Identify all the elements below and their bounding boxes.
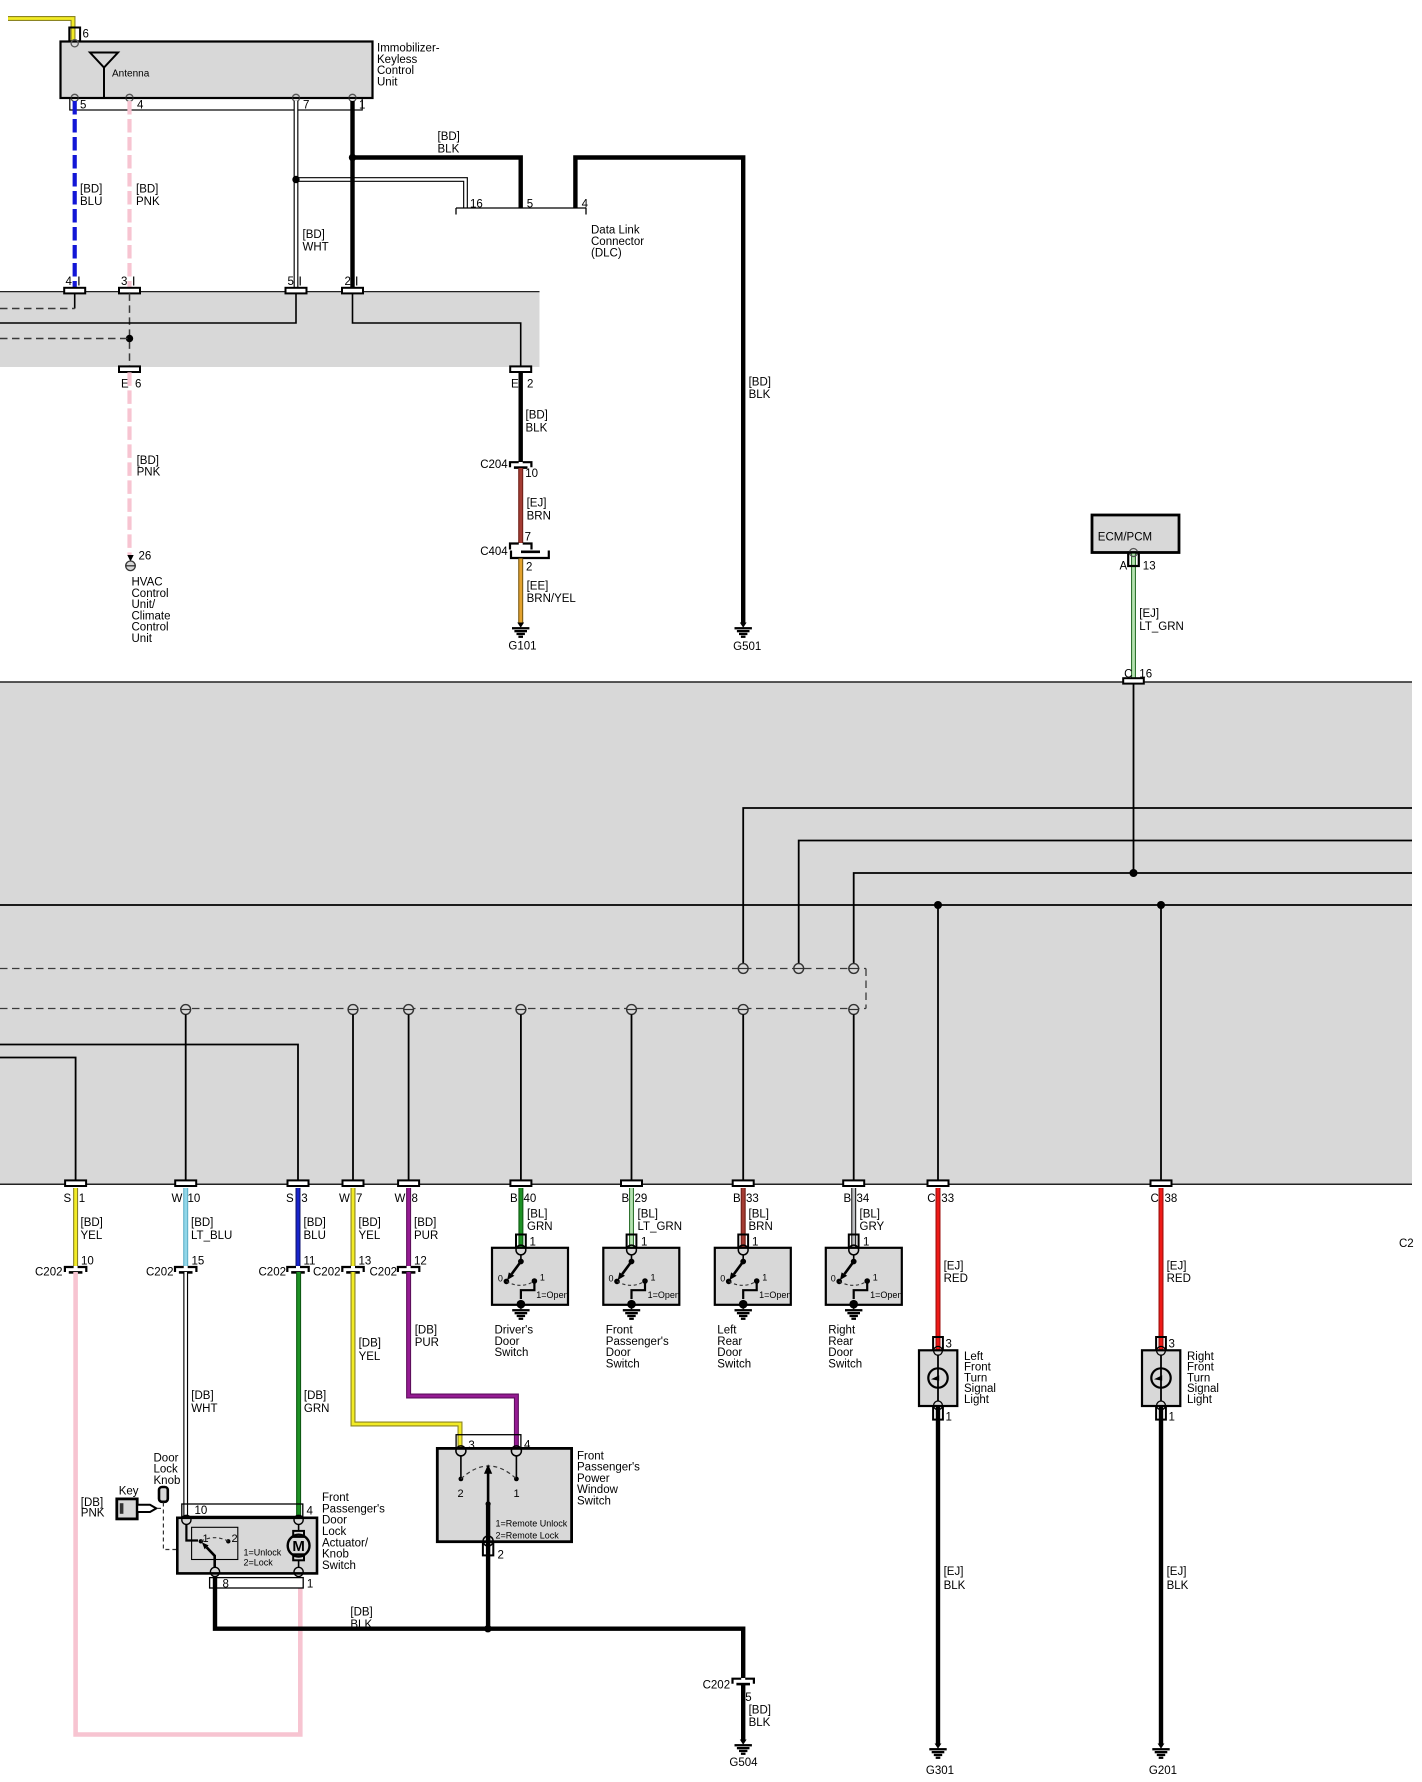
svg-text:0: 0	[831, 1274, 836, 1284]
svg-text:Unit: Unit	[377, 76, 398, 88]
svg-text:C: C	[927, 1193, 935, 1205]
svg-text:[EJ]: [EJ]	[1167, 1566, 1187, 1578]
svg-text:16: 16	[470, 199, 483, 211]
svg-text:W: W	[339, 1193, 350, 1205]
svg-text:PUR: PUR	[414, 1230, 438, 1242]
svg-text:[BD]: [BD]	[80, 183, 102, 195]
svg-text:[BD]: [BD]	[749, 1704, 771, 1716]
svg-text:1=Remote Unlock: 1=Remote Unlock	[496, 1519, 568, 1529]
svg-text:1: 1	[651, 1273, 656, 1283]
svg-text:Door: Door	[154, 1452, 179, 1464]
svg-text:Immobilizer-: Immobilizer-	[377, 43, 440, 55]
svg-text:[DB]: [DB]	[304, 1390, 326, 1402]
svg-text:12: 12	[414, 1256, 427, 1268]
svg-text:Keyless: Keyless	[377, 54, 418, 66]
svg-text:[DB]: [DB]	[415, 1325, 437, 1337]
svg-text:[BL]: [BL]	[638, 1209, 658, 1221]
svg-text:Front: Front	[577, 1450, 605, 1462]
svg-text:[EJ]: [EJ]	[944, 1261, 964, 1273]
svg-text:Switch: Switch	[577, 1496, 611, 1508]
svg-text:Door: Door	[717, 1347, 742, 1359]
svg-text:Connector: Connector	[591, 236, 644, 248]
svg-text:1: 1	[641, 1236, 647, 1248]
svg-text:Rear: Rear	[828, 1336, 853, 1348]
svg-text:RED: RED	[1167, 1273, 1191, 1285]
svg-text:RED: RED	[944, 1273, 968, 1285]
svg-text:7: 7	[525, 532, 531, 544]
svg-text:S: S	[64, 1193, 72, 1205]
svg-text:[BL]: [BL]	[527, 1209, 547, 1221]
svg-text:YEL: YEL	[81, 1230, 103, 1242]
svg-text:Climate: Climate	[132, 610, 171, 622]
svg-text:2: 2	[527, 378, 533, 390]
svg-text:Antenna: Antenna	[112, 69, 150, 80]
svg-text:LT_GRN: LT_GRN	[1139, 621, 1184, 633]
svg-text:33: 33	[746, 1193, 759, 1205]
svg-text:B: B	[622, 1193, 630, 1205]
svg-text:WHT: WHT	[191, 1403, 217, 1415]
svg-text:YEL: YEL	[359, 1351, 381, 1363]
svg-text:10: 10	[188, 1193, 201, 1205]
svg-text:C2: C2	[1399, 1238, 1414, 1250]
svg-text:1: 1	[530, 1236, 536, 1248]
svg-text:B: B	[733, 1193, 741, 1205]
svg-text:1: 1	[540, 1273, 545, 1283]
svg-text:[BD]: [BD]	[438, 131, 460, 143]
svg-text:PUR: PUR	[415, 1337, 439, 1349]
svg-text:Door: Door	[606, 1347, 631, 1359]
svg-text:0: 0	[609, 1274, 614, 1284]
svg-text:BLU: BLU	[304, 1230, 326, 1242]
svg-text:C202: C202	[259, 1267, 287, 1279]
svg-text:[DB]: [DB]	[350, 1607, 372, 1619]
svg-text:G301: G301	[926, 1765, 954, 1777]
svg-text:34: 34	[857, 1193, 870, 1205]
svg-text:Data Link: Data Link	[591, 225, 640, 237]
svg-text:[EJ]: [EJ]	[1139, 608, 1159, 620]
svg-text:2=Lock: 2=Lock	[244, 1557, 274, 1567]
svg-text:ECM/PCM: ECM/PCM	[1098, 531, 1152, 543]
svg-text:[BD]: [BD]	[526, 410, 548, 422]
svg-text:1: 1	[359, 100, 365, 112]
svg-text:1: 1	[762, 1273, 767, 1283]
svg-text:Unit/: Unit/	[132, 599, 156, 611]
svg-text:[BD]: [BD]	[136, 183, 158, 195]
svg-text:BLU: BLU	[80, 196, 102, 208]
svg-text:3: 3	[1169, 1338, 1175, 1350]
svg-text:A: A	[1120, 560, 1128, 572]
svg-text:3: 3	[121, 276, 127, 288]
svg-text:1=Open: 1=Open	[870, 1290, 902, 1300]
svg-text:38: 38	[1165, 1193, 1178, 1205]
svg-text:4: 4	[66, 276, 73, 288]
svg-text:0: 0	[720, 1274, 725, 1284]
svg-text:[BD]: [BD]	[414, 1217, 436, 1229]
svg-text:8: 8	[223, 1578, 229, 1590]
svg-text:M: M	[292, 1538, 305, 1555]
svg-text:BLK: BLK	[526, 422, 548, 434]
svg-text:Lock: Lock	[154, 1464, 179, 1476]
svg-text:BLK: BLK	[1167, 1580, 1189, 1592]
svg-text:1: 1	[752, 1236, 758, 1248]
svg-text:5: 5	[745, 1692, 751, 1704]
svg-text:GRN: GRN	[527, 1221, 553, 1233]
svg-text:BLK: BLK	[350, 1619, 372, 1631]
svg-text:(DLC): (DLC)	[591, 247, 622, 259]
svg-text:3: 3	[946, 1338, 952, 1350]
svg-text:Light: Light	[964, 1394, 990, 1406]
svg-text:0: 0	[498, 1274, 503, 1284]
svg-text:7: 7	[356, 1193, 362, 1205]
svg-text:[BD]: [BD]	[749, 377, 771, 389]
svg-text:[EJ]: [EJ]	[944, 1566, 964, 1578]
svg-text:Actuator/: Actuator/	[322, 1537, 369, 1549]
svg-text:[BD]: [BD]	[359, 1217, 381, 1229]
svg-text:BLK: BLK	[749, 389, 771, 401]
svg-text:4: 4	[307, 1505, 314, 1517]
svg-text:Passenger's: Passenger's	[577, 1462, 640, 1474]
svg-text:G101: G101	[508, 641, 536, 653]
svg-text:C404: C404	[480, 546, 508, 558]
svg-text:8: 8	[412, 1193, 418, 1205]
svg-text:13: 13	[1143, 560, 1156, 572]
svg-text:PNK: PNK	[81, 1508, 105, 1520]
svg-text:GRY: GRY	[860, 1221, 885, 1233]
svg-text:[BD]: [BD]	[191, 1217, 213, 1229]
svg-text:Driver's: Driver's	[495, 1325, 534, 1337]
svg-text:Door: Door	[322, 1515, 347, 1527]
svg-text:BRN: BRN	[749, 1221, 773, 1233]
svg-text:[BD]: [BD]	[137, 455, 159, 467]
svg-text:2=Remote Lock: 2=Remote Lock	[496, 1531, 560, 1541]
svg-text:[DB]: [DB]	[359, 1338, 381, 1350]
svg-text:C204: C204	[480, 459, 508, 471]
svg-text:1=Open: 1=Open	[648, 1290, 680, 1300]
svg-text:29: 29	[635, 1193, 648, 1205]
svg-text:WHT: WHT	[303, 242, 329, 254]
svg-text:Knob: Knob	[322, 1549, 349, 1561]
svg-text:Door: Door	[495, 1336, 520, 1348]
svg-text:PNK: PNK	[137, 467, 161, 479]
svg-text:[DB]: [DB]	[191, 1390, 213, 1402]
svg-text:40: 40	[524, 1193, 537, 1205]
svg-text:26: 26	[139, 550, 152, 562]
svg-text:Control: Control	[377, 65, 414, 77]
svg-text:Control: Control	[132, 588, 169, 600]
svg-text:W: W	[395, 1193, 406, 1205]
svg-text:PNK: PNK	[136, 196, 160, 208]
svg-text:3: 3	[301, 1193, 307, 1205]
svg-text:1=Open: 1=Open	[536, 1290, 568, 1300]
svg-text:G501: G501	[733, 641, 761, 653]
svg-text:1: 1	[946, 1412, 952, 1424]
svg-text:C202: C202	[313, 1267, 341, 1279]
svg-text:Switch: Switch	[717, 1358, 751, 1370]
svg-text:Right: Right	[828, 1325, 856, 1337]
svg-text:C202: C202	[370, 1267, 398, 1279]
svg-text:7: 7	[303, 100, 309, 112]
svg-text:Passenger's: Passenger's	[322, 1503, 385, 1515]
svg-text:G504: G504	[729, 1757, 758, 1769]
svg-text:1: 1	[514, 1488, 520, 1500]
svg-text:[BL]: [BL]	[749, 1209, 769, 1221]
svg-text:Left: Left	[717, 1325, 737, 1337]
svg-text:W: W	[172, 1193, 183, 1205]
svg-text:Power: Power	[577, 1473, 610, 1485]
svg-text:Unit: Unit	[132, 633, 153, 645]
svg-text:YEL: YEL	[359, 1230, 381, 1242]
svg-text:1: 1	[1169, 1412, 1175, 1424]
svg-text:6: 6	[135, 378, 141, 390]
svg-text:2: 2	[526, 562, 532, 574]
svg-text:10: 10	[195, 1505, 208, 1517]
svg-text:[BD]: [BD]	[304, 1217, 326, 1229]
svg-text:Switch: Switch	[322, 1560, 356, 1572]
svg-text:Knob: Knob	[154, 1475, 181, 1487]
svg-text:1: 1	[307, 1578, 313, 1590]
svg-text:S: S	[286, 1193, 294, 1205]
svg-text:B: B	[510, 1193, 518, 1205]
svg-text:4: 4	[137, 100, 144, 112]
svg-text:1: 1	[863, 1236, 869, 1248]
svg-text:10: 10	[525, 468, 538, 480]
svg-text:5: 5	[288, 276, 294, 288]
svg-text:[EE]: [EE]	[527, 580, 549, 592]
svg-text:Light: Light	[1187, 1394, 1213, 1406]
svg-text:C202: C202	[703, 1679, 731, 1691]
svg-text:BLK: BLK	[438, 144, 460, 156]
svg-text:[BD]: [BD]	[303, 229, 325, 241]
svg-text:1=Open: 1=Open	[759, 1290, 791, 1300]
svg-text:[BL]: [BL]	[860, 1209, 880, 1221]
svg-text:2: 2	[498, 1549, 504, 1561]
svg-text:[BD]: [BD]	[81, 1217, 103, 1229]
svg-text:Passenger's: Passenger's	[606, 1336, 669, 1348]
svg-text:10: 10	[81, 1256, 94, 1268]
svg-text:Control: Control	[132, 622, 169, 634]
svg-text:GRN: GRN	[304, 1403, 330, 1415]
svg-text:Switch: Switch	[495, 1347, 529, 1359]
svg-text:13: 13	[359, 1256, 372, 1268]
svg-text:LT_BLU: LT_BLU	[191, 1230, 232, 1242]
svg-text:2: 2	[345, 276, 351, 288]
svg-text:Key: Key	[119, 1486, 139, 1498]
svg-text:BRN: BRN	[527, 510, 551, 522]
svg-text:Rear: Rear	[717, 1336, 742, 1348]
svg-text:Switch: Switch	[606, 1358, 640, 1370]
svg-text:HVAC: HVAC	[132, 577, 163, 589]
svg-text:1=Unlock: 1=Unlock	[244, 1547, 282, 1557]
svg-text:C: C	[1151, 1193, 1159, 1205]
svg-text:[EJ]: [EJ]	[1167, 1261, 1187, 1273]
svg-text:1: 1	[873, 1273, 878, 1283]
svg-text:33: 33	[941, 1193, 954, 1205]
svg-text:15: 15	[192, 1256, 205, 1268]
svg-text:4: 4	[582, 199, 589, 211]
svg-text:2: 2	[458, 1488, 464, 1500]
svg-text:C202: C202	[146, 1267, 174, 1279]
svg-text:2: 2	[232, 1533, 238, 1545]
svg-text:Lock: Lock	[322, 1526, 347, 1538]
svg-text:6: 6	[83, 29, 89, 41]
svg-text:5: 5	[80, 100, 86, 112]
svg-text:C202: C202	[35, 1267, 63, 1279]
svg-text:[EJ]: [EJ]	[527, 498, 547, 510]
svg-text:BRN/YEL: BRN/YEL	[527, 593, 577, 605]
svg-text:BLK: BLK	[749, 1717, 771, 1729]
svg-text:Window: Window	[577, 1484, 619, 1496]
svg-text:1: 1	[79, 1193, 85, 1205]
svg-text:E: E	[511, 378, 519, 390]
svg-text:G201: G201	[1149, 1765, 1177, 1777]
svg-text:Front: Front	[322, 1492, 350, 1504]
svg-text:B: B	[844, 1193, 852, 1205]
svg-text:BLK: BLK	[944, 1580, 966, 1592]
svg-text:11: 11	[304, 1256, 316, 1268]
svg-text:5: 5	[527, 199, 533, 211]
svg-text:LT_GRN: LT_GRN	[638, 1221, 683, 1233]
svg-text:Front: Front	[606, 1325, 634, 1337]
svg-text:Switch: Switch	[828, 1358, 862, 1370]
svg-text:Door: Door	[828, 1347, 853, 1359]
